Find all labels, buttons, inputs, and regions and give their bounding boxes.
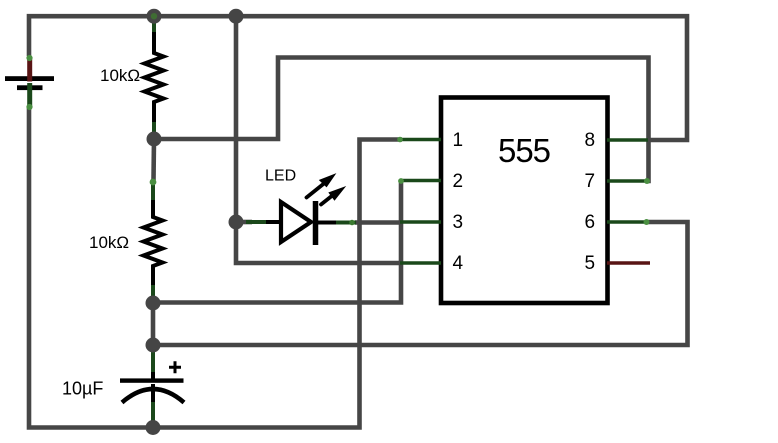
svg-text:3: 3 xyxy=(453,212,464,233)
svg-text:6: 6 xyxy=(585,212,596,233)
pin 8 leg of U1 xyxy=(607,138,648,142)
node wire endpoint at pin 7 xyxy=(644,178,650,184)
pin 6 leg of U1 xyxy=(607,220,648,224)
pin 5 leg of U1 unconnected xyxy=(607,261,650,265)
wire node B to node C xyxy=(151,303,156,346)
node C junction capacitor top / pin6 wire xyxy=(146,338,161,353)
svg-text:LED: LED xyxy=(265,168,296,185)
capacitor C1 10uF polarized xyxy=(120,348,184,425)
node top rail junction above LED drop xyxy=(229,9,244,24)
wire pin 2 of U1 to node B below R2 xyxy=(153,181,401,303)
op-amp style IC body: U1 555 timer xyxy=(441,98,608,304)
wire node A to resistor R2 top xyxy=(151,139,156,180)
pin 2 leg of U1 xyxy=(400,179,441,183)
svg-text:2: 2 xyxy=(453,171,464,192)
svg-text:555: 555 xyxy=(498,132,550,169)
svg-text:1: 1 xyxy=(453,130,464,151)
wire pin 6 of U1 to node C above capacitor C1 xyxy=(153,222,688,345)
node D LED anode junction xyxy=(229,215,244,230)
wire pin 7 of U1 to node between R1 and R2 xyxy=(154,58,649,182)
node top rail junction above R1 xyxy=(147,9,162,24)
pin 1 leg of U1 xyxy=(400,138,441,142)
pin 4 leg of U1 xyxy=(400,261,441,265)
wire pin 1 of U1 to ground rail and battery minus xyxy=(29,107,402,428)
pin 7 leg of U1 xyxy=(607,179,648,183)
node ground rail junction at capacitor bottom xyxy=(146,420,161,435)
svg-text:4: 4 xyxy=(453,253,464,274)
node wire endpoint at pin 2 xyxy=(398,178,404,184)
node A junction R1/R2/pin7 wire xyxy=(147,132,162,147)
node B junction R2 bottom / pin2 wire xyxy=(146,296,161,311)
wire top rail from battery plus to pin 8 of U1 xyxy=(29,16,687,140)
svg-text:10kΩ: 10kΩ xyxy=(89,233,129,252)
wire LED cathode to pin 3 of U1 xyxy=(355,220,402,225)
svg-text:8: 8 xyxy=(585,130,596,151)
LED D1 xyxy=(246,173,356,245)
svg-text:7: 7 xyxy=(585,171,596,192)
svg-text:5: 5 xyxy=(585,253,596,274)
svg-text:10kΩ: 10kΩ xyxy=(100,66,140,85)
battery V1 xyxy=(5,55,54,110)
resistor R2 10k xyxy=(144,179,163,301)
resistor R1 10k xyxy=(145,14,164,136)
svg-text:10µF: 10µF xyxy=(62,379,103,399)
node wire endpoint at pin 1 xyxy=(397,137,403,143)
pin 3 leg of U1 xyxy=(400,220,441,224)
wire top rail through LED node down to pin 4 of U1 xyxy=(236,16,402,263)
node wire endpoint at pin 6 xyxy=(644,219,650,225)
wire LED anode to node D xyxy=(236,220,252,225)
